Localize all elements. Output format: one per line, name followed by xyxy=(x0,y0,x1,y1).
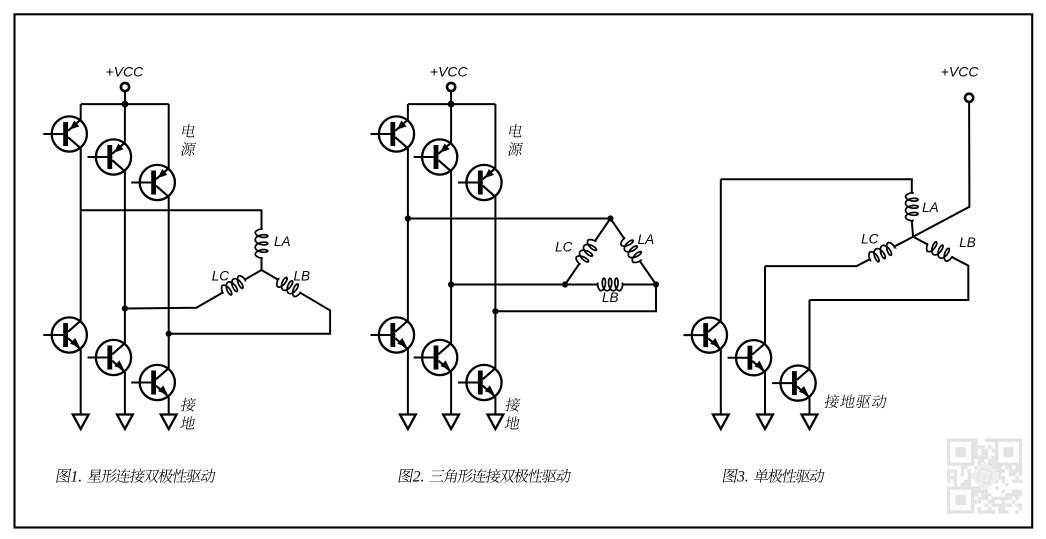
svg-text:3.: 3. xyxy=(736,468,749,485)
transistor Q5 NPN (fig1) xyxy=(88,340,132,375)
inductor LB (fig2) xyxy=(598,278,623,291)
wire Q6 emitter to ground (fig1) xyxy=(168,397,170,415)
inductor LC (fig2) xyxy=(576,240,596,265)
wire phase C upper (fig1) xyxy=(168,104,170,168)
wire Q7 collector to node (fig2) xyxy=(407,148,409,218)
transistor Q4 NPN (fig1) xyxy=(43,317,87,352)
junction +VCC node (fig1) xyxy=(122,101,129,108)
wire LA to star point (fig1) xyxy=(261,258,263,270)
svg-text:LA: LA xyxy=(274,234,291,249)
svg-text:LB: LB xyxy=(959,235,976,250)
junction phase C node (fig2) xyxy=(492,308,498,314)
wire phase C upper (fig2) xyxy=(494,104,496,168)
transistor Q11 NPN (fig2) xyxy=(414,340,458,375)
junction delta bottom-left vertex (fig2) xyxy=(562,281,568,287)
wire LB to phase C drop (fig3) xyxy=(810,257,969,300)
transistor Q8 PNP (fig2) xyxy=(414,139,458,174)
wire star point to LB (fig3) xyxy=(913,237,927,244)
junction delta bottom-right vertex (fig2) xyxy=(653,281,659,287)
wire phase B upper (fig1) xyxy=(124,104,126,143)
wire node to Q12 collector (fig2) xyxy=(494,311,496,368)
wire Q13 emitter to ground (fig3) xyxy=(720,349,722,414)
transistor Q6 NPN (fig1) xyxy=(131,365,175,400)
wire LA to star point (fig3) xyxy=(912,221,913,237)
wire node to Q10 collector (fig2) xyxy=(407,219,409,321)
transistor Q13 NPN (fig3) xyxy=(683,318,727,353)
wire Q9 collector to node (fig2) xyxy=(494,197,496,311)
transistor Q7 PNP (fig2) xyxy=(371,116,415,151)
inductor LB (fig1) xyxy=(277,277,301,296)
label 接地驱动 (fig3) xyxy=(824,394,840,408)
wire delta top to LA (fig2) xyxy=(610,219,624,239)
wire Q8 collector to node (fig2) xyxy=(450,171,452,284)
wire star point to LC (fig3) xyxy=(895,237,914,247)
wire phase A upper (fig1) xyxy=(80,104,82,120)
wire LC to phase B node (fig1) xyxy=(125,293,223,309)
svg-text:LA: LA xyxy=(922,200,939,215)
wire Q15 emitter to ground (fig3) xyxy=(809,397,811,414)
wire delta top to LC (fig2) xyxy=(595,219,610,241)
svg-text:LA: LA xyxy=(638,232,655,247)
ground symbol phase C (fig2) xyxy=(488,415,504,430)
supply terminal +VCC (fig1) xyxy=(121,83,129,91)
transistor Q1 PNP (fig1) xyxy=(43,116,87,151)
wire phase C drop (fig3) xyxy=(809,300,811,369)
wire node to Q4 collector (fig1) xyxy=(80,210,82,320)
wire Q14 emitter to ground (fig3) xyxy=(764,372,766,415)
wire node to Q6 collector (fig1) xyxy=(168,334,170,368)
wire Q2 collector to node (fig1) xyxy=(124,171,126,308)
inductor LC (fig1) xyxy=(222,276,246,295)
junction phase B node (fig1) xyxy=(122,305,128,311)
label 电源 (fig2) xyxy=(509,124,524,137)
ground symbol phase A (fig1) xyxy=(73,415,89,430)
junction phase A node (fig2) xyxy=(405,215,411,221)
supply terminal +VCC (fig3) xyxy=(965,94,973,102)
decorative QR watermark xyxy=(947,439,1022,514)
wire Q5 emitter to ground (fig1) xyxy=(124,372,126,415)
inductor LA (fig3) xyxy=(906,193,919,221)
svg-text:+VCC: +VCC xyxy=(430,64,469,80)
wire phase C to delta bottom-right (fig2) xyxy=(495,285,656,312)
svg-text:2.: 2. xyxy=(413,468,425,485)
junction phase C node (fig1) xyxy=(166,331,172,337)
wire phase A drop (fig3) xyxy=(720,179,722,320)
wire star point to LC (fig1) xyxy=(245,270,261,280)
wire +VCC rail (fig2) xyxy=(408,103,496,105)
inductor LA (fig1) xyxy=(255,229,268,259)
ground symbol phase B (fig3) xyxy=(757,415,773,430)
wire phase A upper (fig2) xyxy=(407,104,409,120)
wire delta bottom left segment (fig2) xyxy=(565,284,598,286)
svg-text:LC: LC xyxy=(861,232,879,247)
caption fig1 xyxy=(56,469,71,483)
wire phase A to delta top (fig2) xyxy=(408,218,611,220)
wire Q12 emitter to ground (fig2) xyxy=(494,397,496,415)
label 接地 (fig2) xyxy=(505,398,521,412)
junction +VCC node (fig2) xyxy=(448,101,455,108)
wire delta bottom right segment (fig2) xyxy=(623,284,656,286)
wire terminal to rail (fig1) xyxy=(124,91,126,104)
wire Q3 collector to node (fig1) xyxy=(168,197,170,334)
inductor LC (fig3) xyxy=(869,243,895,262)
inductor LB (fig3) xyxy=(927,242,953,261)
inductor LA (fig2) xyxy=(621,238,642,263)
supply terminal +VCC (fig2) xyxy=(447,83,455,91)
junction delta top vertex (fig2) xyxy=(607,215,613,221)
ground symbol phase A (fig3) xyxy=(713,415,729,430)
svg-text:LC: LC xyxy=(212,268,230,283)
ground symbol phase B (fig2) xyxy=(443,415,459,430)
wire phase B drop (fig3) xyxy=(764,266,766,343)
wire LA to bottom-right vertex (fig2) xyxy=(640,261,656,284)
wire LC to phase B drop (fig3) xyxy=(765,259,870,266)
wire Q1 collector to node (fig1) xyxy=(80,148,82,210)
transistor Q14 NPN (fig3) xyxy=(728,340,772,375)
wire terminal to rail (fig2) xyxy=(450,91,452,104)
wire LA horizontal (fig3) xyxy=(721,179,912,192)
transistor Q9 PNP (fig2) xyxy=(458,165,502,200)
caption fig2 xyxy=(398,469,413,483)
wire star point to LB (fig1) xyxy=(262,270,278,280)
ground symbol phase C (fig1) xyxy=(161,415,177,430)
transistor Q15 NPN (fig3) xyxy=(772,366,816,401)
wire LB to phase C node (fig1) xyxy=(169,293,330,334)
label 电源 (fig1) xyxy=(182,124,197,137)
svg-text:LB: LB xyxy=(602,290,619,305)
wire node to Q11 collector (fig2) xyxy=(450,285,452,344)
wire phase A to LA (fig1) xyxy=(81,210,262,228)
wire +VCC rail (fig1) xyxy=(81,103,169,105)
ground symbol phase B (fig1) xyxy=(117,415,133,430)
ground symbol phase C (fig3) xyxy=(802,415,818,430)
transistor Q3 PNP (fig1) xyxy=(131,165,175,200)
wire Q4 emitter to ground (fig1) xyxy=(80,349,82,414)
svg-text:+VCC: +VCC xyxy=(941,64,980,80)
wire Q11 emitter to ground (fig2) xyxy=(450,372,452,415)
ground symbol phase A (fig2) xyxy=(400,415,416,430)
transistor Q12 NPN (fig2) xyxy=(458,365,502,400)
wire LC to bottom-left vertex (fig2) xyxy=(565,264,579,285)
label 接地 (fig1) xyxy=(180,398,196,412)
caption fig3 xyxy=(723,469,738,483)
svg-text:+VCC: +VCC xyxy=(106,64,145,80)
svg-text:1.: 1. xyxy=(71,468,83,485)
wire node to Q5 collector (fig1) xyxy=(124,309,126,344)
wire Q10 emitter to ground (fig2) xyxy=(407,349,409,414)
junction phase B node (fig2) xyxy=(448,281,454,287)
wire +VCC to star point (fig3) xyxy=(913,102,969,237)
transistor Q10 NPN (fig2) xyxy=(371,317,415,352)
svg-text:LB: LB xyxy=(294,268,311,283)
svg-text:LC: LC xyxy=(555,239,573,254)
wire phase B upper (fig2) xyxy=(450,104,452,143)
transistor Q2 PNP (fig1) xyxy=(88,139,132,174)
wire phase B to delta bottom-left (fig2) xyxy=(451,284,565,286)
